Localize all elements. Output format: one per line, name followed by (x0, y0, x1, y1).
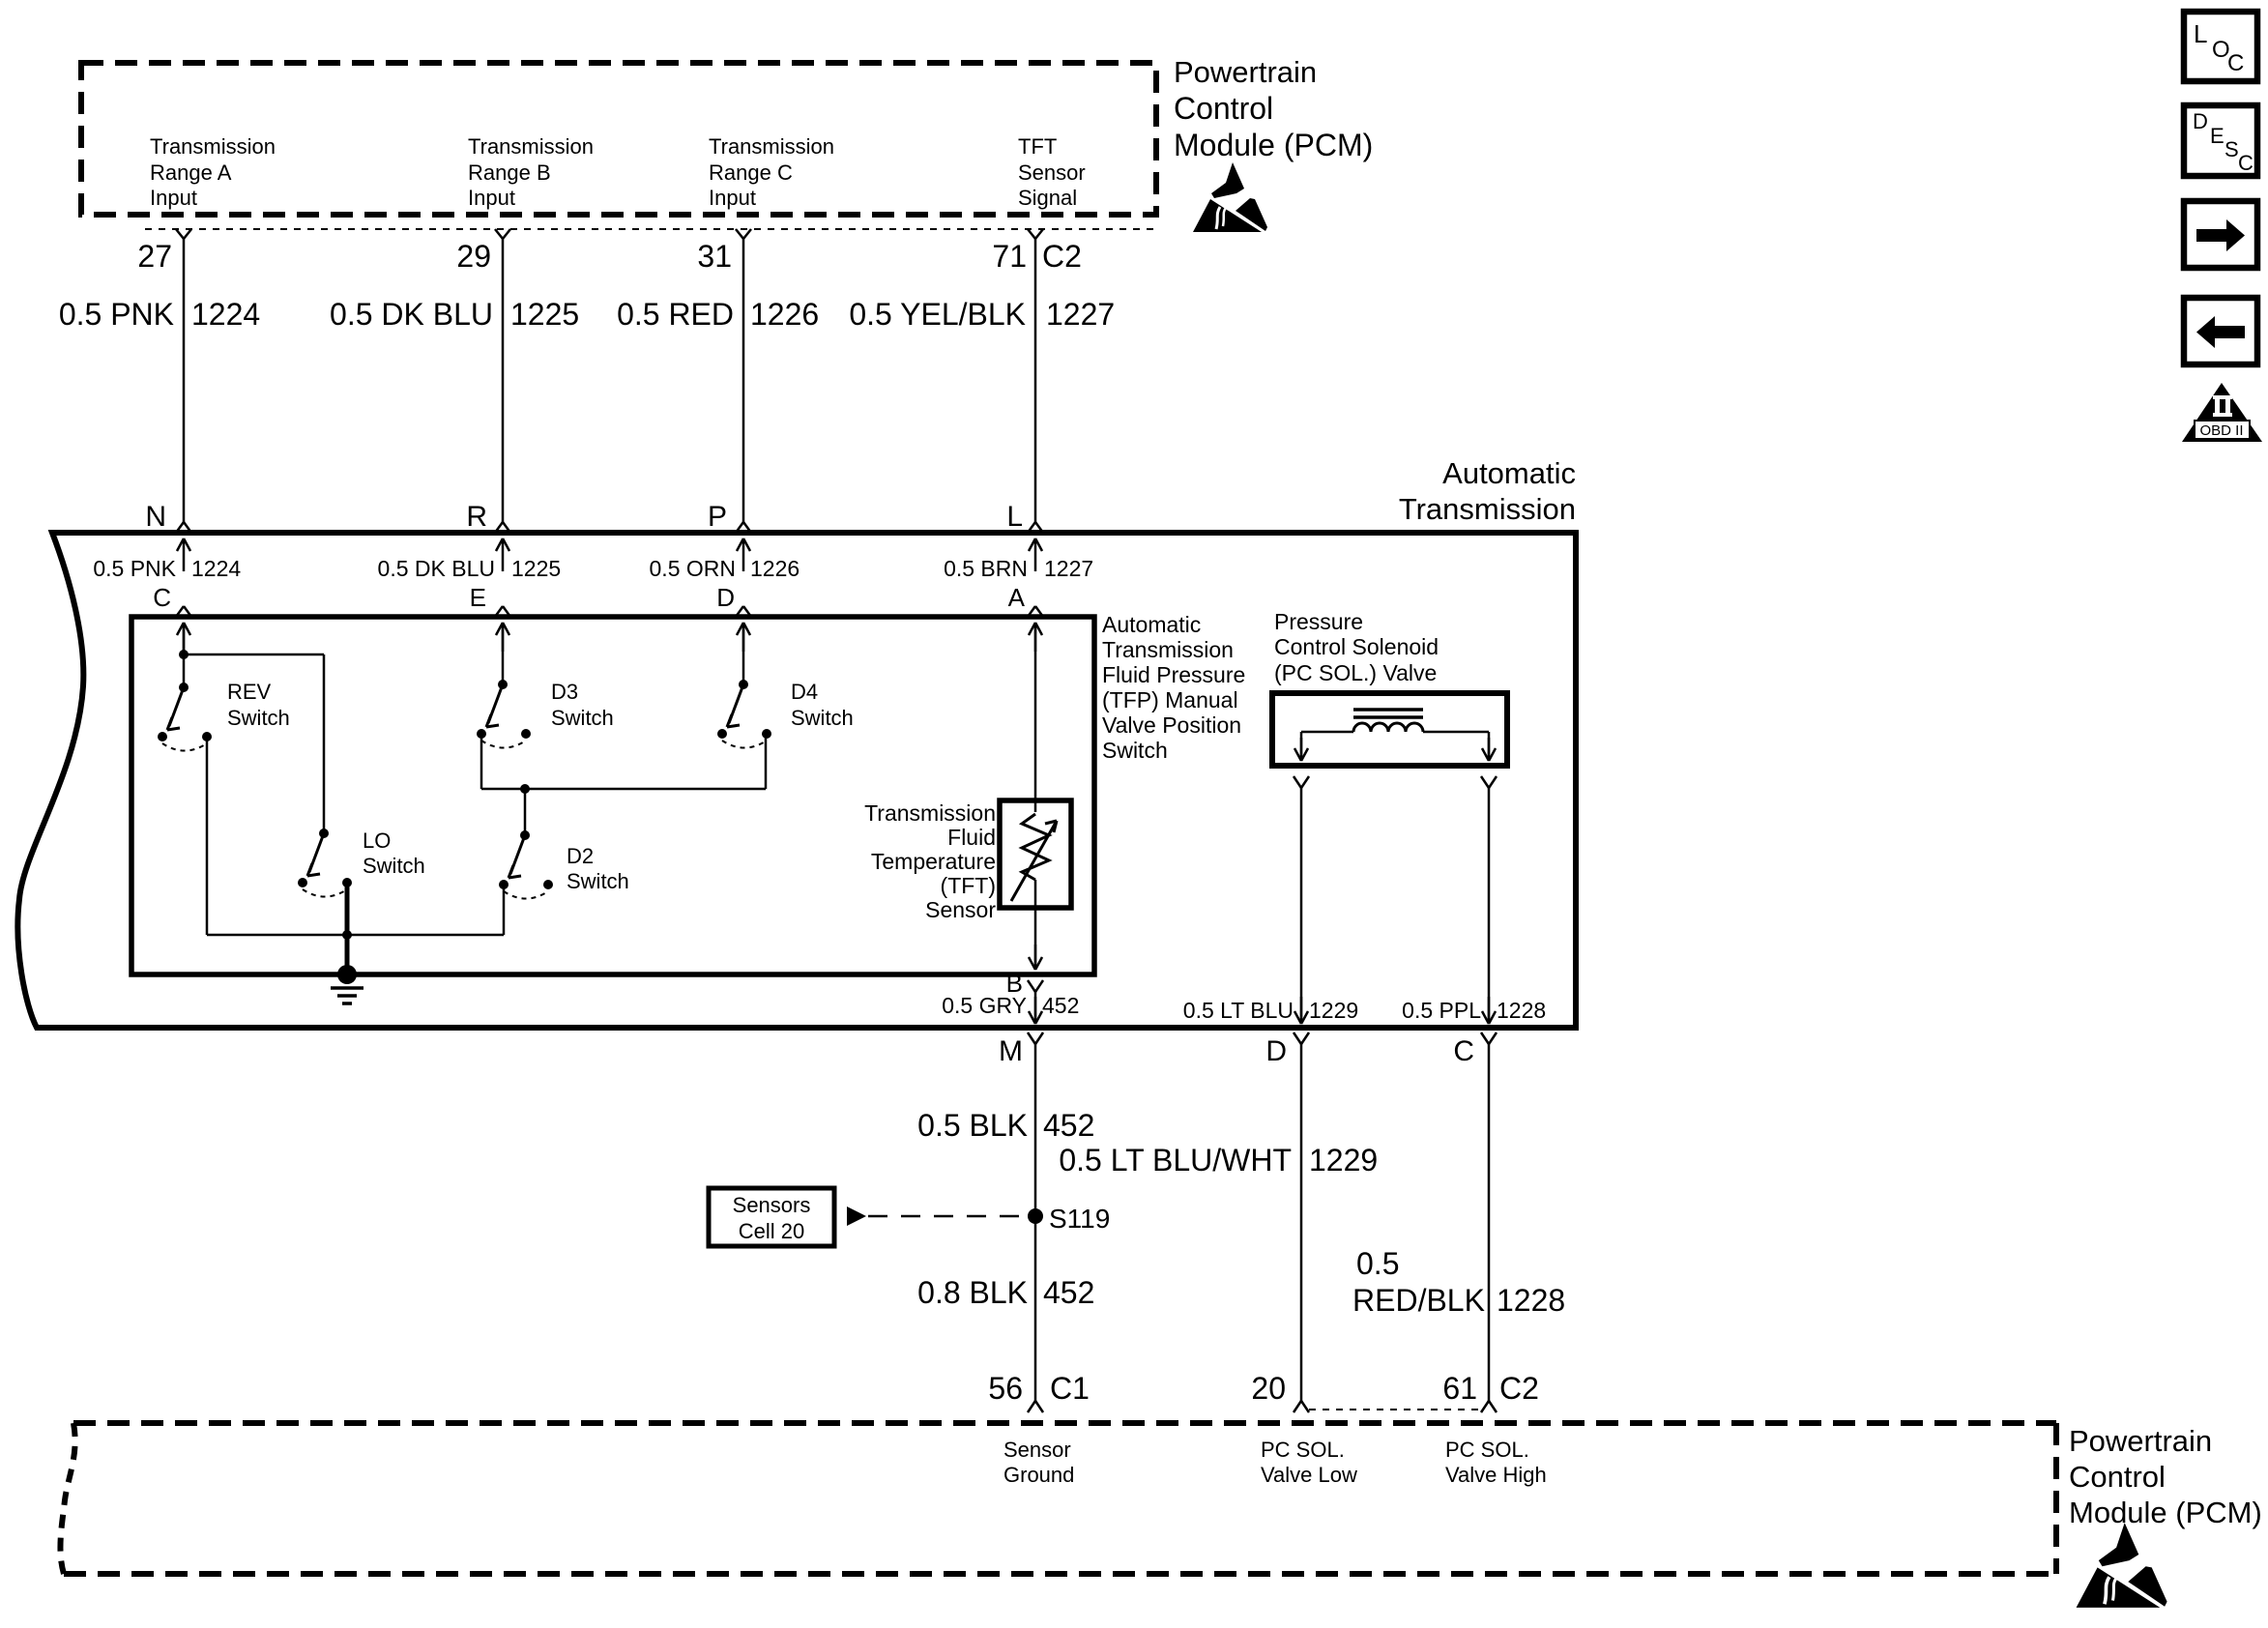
svg-text:1225: 1225 (511, 556, 561, 581)
svg-text:Switch: Switch (791, 706, 854, 730)
svg-text:Switch: Switch (227, 706, 290, 730)
svg-text:Signal: Signal (1018, 186, 1077, 210)
svg-text:Control Solenoid: Control Solenoid (1274, 634, 1439, 659)
svg-text:1227: 1227 (1044, 556, 1093, 581)
svg-text:29: 29 (456, 239, 491, 274)
svg-text:27: 27 (137, 239, 172, 274)
svg-text:C2: C2 (1499, 1371, 1539, 1406)
svg-text:Transmission: Transmission (1102, 637, 1234, 662)
svg-text:Cell 20: Cell 20 (739, 1219, 804, 1243)
svg-text:R: R (466, 501, 487, 533)
svg-text:1229: 1229 (1309, 998, 1358, 1023)
svg-text:Control: Control (1174, 91, 1273, 126)
svg-text:Pressure: Pressure (1274, 609, 1363, 634)
svg-text:0.5 GRY: 0.5 GRY (942, 993, 1027, 1018)
svg-text:0.5 PNK: 0.5 PNK (93, 556, 176, 581)
svg-text:D: D (1265, 1035, 1287, 1067)
svg-text:1226: 1226 (750, 297, 819, 332)
svg-text:N: N (145, 501, 166, 533)
svg-text:C: C (2227, 50, 2244, 76)
svg-text:D2: D2 (567, 844, 594, 868)
svg-text:D3: D3 (551, 680, 578, 704)
svg-text:M: M (999, 1035, 1023, 1067)
svg-text:71: 71 (992, 239, 1027, 274)
svg-text:(PC SOL.) Valve: (PC SOL.) Valve (1274, 660, 1437, 685)
svg-text:OBD II: OBD II (2199, 422, 2243, 439)
svg-text:PC SOL.: PC SOL. (1261, 1438, 1345, 1462)
svg-text:1228: 1228 (1497, 1283, 1565, 1318)
svg-text:Switch: Switch (1102, 738, 1168, 763)
svg-text:Valve Position: Valve Position (1102, 712, 1241, 738)
svg-text:Transmission: Transmission (864, 800, 996, 826)
svg-text:Transmission: Transmission (150, 134, 276, 159)
svg-text:452: 452 (1043, 1108, 1094, 1143)
svg-text:RED/BLK: RED/BLK (1352, 1283, 1485, 1318)
svg-text:Valve Low: Valve Low (1261, 1463, 1357, 1487)
svg-text:C: C (2238, 151, 2253, 175)
svg-text:0.5 BLK: 0.5 BLK (917, 1108, 1028, 1143)
svg-text:0.5 BRN: 0.5 BRN (944, 556, 1028, 581)
svg-text:C: C (153, 583, 171, 612)
svg-text:Sensor: Sensor (925, 897, 996, 922)
svg-text:Input: Input (468, 186, 515, 210)
svg-text:0.5 ORN: 0.5 ORN (650, 556, 736, 581)
svg-text:Switch: Switch (551, 706, 614, 730)
svg-text:0.8 BLK: 0.8 BLK (917, 1275, 1028, 1310)
svg-text:Sensor: Sensor (1003, 1438, 1071, 1462)
svg-text:0.5 LT BLU: 0.5 LT BLU (1183, 998, 1294, 1023)
svg-text:1224: 1224 (191, 297, 260, 332)
svg-text:Fluid Pressure: Fluid Pressure (1102, 662, 1245, 687)
svg-text:TFT: TFT (1018, 134, 1057, 159)
svg-text:Powertrain: Powertrain (2069, 1424, 2212, 1458)
svg-text:L: L (2194, 19, 2207, 48)
svg-text:P: P (708, 501, 727, 533)
svg-text:31: 31 (697, 239, 732, 274)
svg-text:61: 61 (1442, 1371, 1477, 1406)
svg-text:D: D (716, 583, 735, 612)
svg-text:Transmission: Transmission (468, 134, 594, 159)
svg-text:C1: C1 (1050, 1371, 1090, 1406)
svg-text:L: L (1006, 501, 1023, 533)
svg-text:D4: D4 (791, 680, 818, 704)
svg-text:Transmission: Transmission (1399, 492, 1576, 526)
svg-text:S: S (2224, 137, 2239, 161)
svg-text:0.5 LT BLU/WHT: 0.5 LT BLU/WHT (1059, 1143, 1292, 1177)
svg-text:56: 56 (988, 1371, 1023, 1406)
svg-text:Sensor: Sensor (1018, 160, 1086, 185)
svg-text:1225: 1225 (510, 297, 579, 332)
svg-text:1229: 1229 (1309, 1143, 1378, 1177)
svg-text:D: D (2193, 109, 2208, 133)
svg-text:Switch: Switch (567, 869, 629, 893)
svg-text:1227: 1227 (1046, 297, 1115, 332)
svg-text:Module (PCM): Module (PCM) (2069, 1496, 2262, 1529)
svg-text:Powertrain: Powertrain (1174, 55, 1317, 89)
svg-text:0.5 DK BLU: 0.5 DK BLU (330, 297, 493, 332)
svg-text:Input: Input (150, 186, 197, 210)
svg-text:0.5 RED: 0.5 RED (617, 297, 734, 332)
svg-text:Control: Control (2069, 1460, 2166, 1494)
svg-text:A: A (1008, 583, 1026, 612)
svg-text:Input: Input (709, 186, 756, 210)
svg-text:S119: S119 (1049, 1204, 1110, 1234)
svg-text:Module (PCM): Module (PCM) (1174, 128, 1373, 162)
svg-text:0.5 PNK: 0.5 PNK (59, 297, 174, 332)
svg-text:0.5 YEL/BLK: 0.5 YEL/BLK (849, 297, 1026, 332)
svg-text:E: E (2210, 124, 2224, 148)
svg-text:0.5: 0.5 (1356, 1246, 1399, 1281)
svg-text:Range C: Range C (709, 160, 793, 185)
svg-text:REV: REV (227, 680, 272, 704)
svg-text:0.5 PPL: 0.5 PPL (1402, 998, 1481, 1023)
svg-text:Transmission: Transmission (709, 134, 834, 159)
svg-text:0.5 DK BLU: 0.5 DK BLU (378, 556, 495, 581)
svg-text:C2: C2 (1042, 239, 1082, 274)
svg-text:E: E (470, 583, 486, 612)
svg-text:Range A: Range A (150, 160, 232, 185)
svg-text:Switch: Switch (363, 854, 425, 878)
svg-text:(TFT): (TFT) (941, 873, 996, 898)
svg-text:Range B: Range B (468, 160, 551, 185)
svg-text:Automatic: Automatic (1102, 612, 1201, 637)
svg-text:Ground: Ground (1003, 1463, 1074, 1487)
svg-text:452: 452 (1043, 1275, 1094, 1310)
svg-text:1228: 1228 (1497, 998, 1546, 1023)
svg-text:20: 20 (1251, 1371, 1286, 1406)
svg-text:1226: 1226 (750, 556, 800, 581)
svg-text:Valve High: Valve High (1445, 1463, 1547, 1487)
svg-text:PC SOL.: PC SOL. (1445, 1438, 1529, 1462)
svg-text:Automatic: Automatic (1442, 456, 1576, 490)
svg-text:(TFP) Manual: (TFP) Manual (1102, 687, 1238, 712)
svg-text:1224: 1224 (191, 556, 241, 581)
svg-text:Temperature: Temperature (871, 849, 996, 874)
svg-text:452: 452 (1042, 993, 1079, 1018)
svg-text:C: C (1453, 1035, 1474, 1067)
svg-text:LO: LO (363, 829, 391, 853)
svg-text:Sensors: Sensors (733, 1193, 811, 1217)
svg-text:Fluid: Fluid (947, 825, 996, 850)
